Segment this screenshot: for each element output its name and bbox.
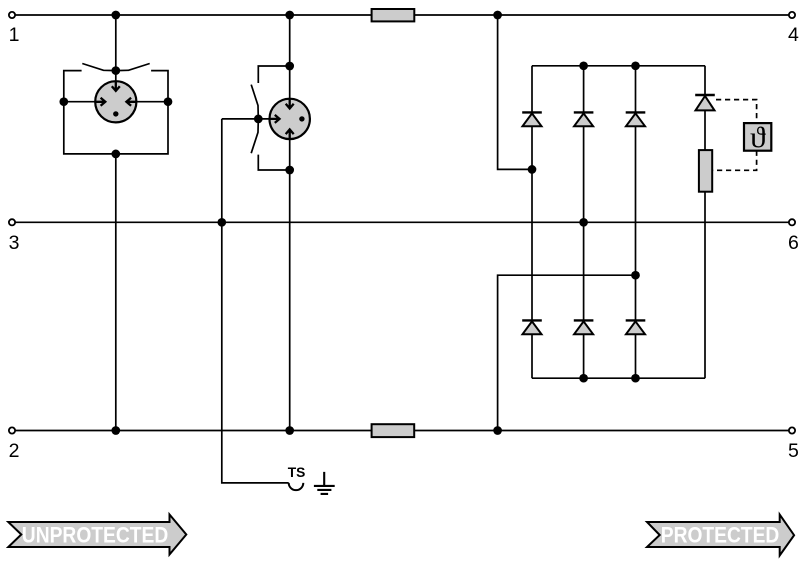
- junction middle line at TS branch: [217, 218, 226, 227]
- diode D4 (col1 bottom): [522, 320, 542, 334]
- junction GDT1 box bottom: [111, 150, 120, 159]
- junction bottom line at GDT2: [285, 426, 294, 435]
- GDT2 third electrode dot: [299, 116, 304, 121]
- fail-safe switch blades (GDT2): [251, 85, 258, 154]
- diode matrix bottom bus: [532, 377, 705, 379]
- junction top line at x=497: [493, 11, 502, 20]
- svg-text:UNPROTECTED: UNPROTECTED: [22, 523, 169, 548]
- decoupling resistor R2 (bottom line): [372, 424, 415, 437]
- fail-safe switch blades (GDT1): [82, 64, 149, 71]
- terminal 6: [789, 219, 795, 225]
- diode D2 (col2 top): [574, 112, 594, 126]
- decoupling resistor R1 (top line): [372, 9, 415, 21]
- wire GDT1 right electrode: [136, 101, 168, 103]
- wire GDT2 column top: [289, 15, 291, 99]
- wire GDT2 left electrode: [222, 118, 270, 120]
- GDT1 top arrow: [112, 81, 120, 91]
- junction GDT2 box left: [254, 115, 263, 124]
- svg-text:5: 5: [788, 440, 799, 462]
- UNPROTECTED arrow: [8, 515, 186, 555]
- diode column 4 (right branch): [704, 66, 706, 378]
- diode column 1: [531, 66, 533, 378]
- diode D5 (col2 bottom): [574, 320, 594, 334]
- wire from top line to diode matrix (left upper L): [498, 15, 532, 169]
- svg-text:1: 1: [9, 24, 20, 46]
- diode D1 (col1 top): [522, 112, 542, 126]
- junction diode column1 upper: [528, 165, 537, 174]
- wire middle line 3-6: [15, 221, 789, 223]
- junction bottom bus col3: [631, 374, 640, 383]
- wire bottom line 2-5: [15, 430, 789, 432]
- svg-text:3: 3: [9, 232, 20, 254]
- terminal 3: [9, 219, 15, 225]
- thermal coupling dashed link: [712, 100, 756, 171]
- wire GDT1 column bottom: [115, 154, 117, 431]
- junction diode column3 lower: [631, 271, 640, 280]
- junction bottom line at x=497: [493, 426, 502, 435]
- terminal 1: [9, 12, 15, 18]
- gas discharge tube F1 enclosure box: [64, 71, 168, 154]
- junction middle line col2: [579, 218, 588, 227]
- diode column 3: [635, 66, 637, 378]
- wire GDT2 column bottom: [289, 139, 291, 430]
- gas discharge tube F1 body: [95, 81, 136, 122]
- diode column 2: [583, 66, 585, 378]
- thermal fuse F3 (col4): [699, 150, 712, 192]
- gas discharge tube F2 body: [270, 99, 310, 139]
- GDT1 left arrow: [95, 98, 105, 106]
- wire TS branch (from GDT2 left electrode down): [222, 119, 289, 483]
- svg-text:TS: TS: [288, 465, 306, 480]
- junction GDT1 box left: [59, 97, 68, 106]
- junction bottom line at GDT1: [111, 426, 120, 435]
- svg-text:4: 4: [788, 24, 799, 46]
- PROTECTED arrow: [647, 515, 794, 556]
- wire GDT1 column top: [115, 15, 117, 81]
- GDT1 third electrode dot: [113, 111, 118, 116]
- GDT1 right arrow: [126, 98, 136, 106]
- diode D7 (col4): [695, 95, 715, 110]
- terminal 4: [789, 12, 795, 18]
- wire top line 1-4: [15, 14, 789, 16]
- svg-text:ϑ: ϑ: [750, 122, 766, 154]
- wire GDT1 left electrode: [64, 101, 96, 103]
- junction top bus col3: [631, 61, 640, 70]
- junction GDT2 box bottom: [285, 166, 294, 175]
- svg-text:6: 6: [788, 232, 799, 254]
- gas discharge tube F2 enclosure box: [258, 66, 289, 170]
- ground symbol: [314, 472, 335, 494]
- junction top line at GDT1: [111, 11, 120, 20]
- GDT2 top arrow: [286, 99, 294, 109]
- junction GDT2 box top: [285, 62, 294, 71]
- svg-text:2: 2: [9, 440, 20, 462]
- wire from bottom line to diode matrix (left lower L): [498, 275, 636, 430]
- GDT2 left arrow: [270, 115, 280, 123]
- diode D3 (col3 top): [626, 112, 646, 126]
- svg-text:PROTECTED: PROTECTED: [661, 523, 780, 548]
- TS plug contact hook: [289, 483, 304, 490]
- diode matrix top bus: [532, 65, 705, 67]
- junction bottom bus col2: [579, 374, 588, 383]
- GDT2 bottom arrow: [286, 129, 294, 139]
- terminal 5: [789, 427, 795, 433]
- terminal 2: [9, 427, 15, 433]
- junction GDT1 switch: [111, 66, 120, 75]
- junction top line at GDT2: [285, 11, 294, 20]
- diode D6 (col3 bottom): [626, 320, 646, 334]
- temperature sensor box: [744, 123, 771, 151]
- junction top bus col2: [579, 61, 588, 70]
- junction GDT1 box right: [164, 97, 173, 106]
